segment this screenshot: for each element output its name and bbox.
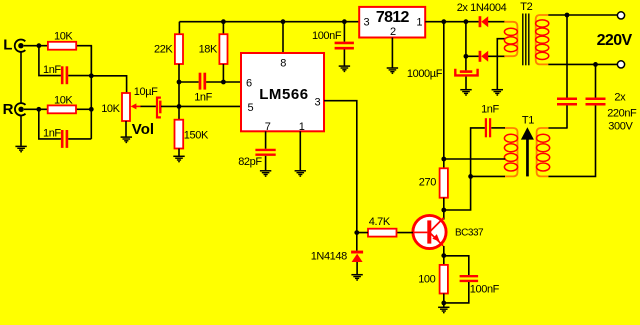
svg-text:6: 6 [246,77,252,89]
wire 1nF-R drop [39,109,61,139]
wire diode2 anode lead [466,55,479,57]
resistor 100 [440,265,448,294]
wire emitter down [443,246,445,265]
wire 1000uF to ground [465,77,467,90]
capacitor 100nF (emitter) [460,276,479,281]
capacitor 1nF (tank) [486,118,490,137]
wire T1 coil bottom branch [471,175,505,177]
svg-text:1nF: 1nF [481,104,499,116]
wire 18K top [222,22,224,35]
wire wiper to 10uF [141,105,156,107]
wire 100nF bottom return [444,282,469,303]
svg-text:4.7K: 4.7K [369,216,391,228]
node rail 100nF junction [342,19,347,24]
svg-text:300V: 300V [608,121,633,133]
resistor 10K (R) [48,105,76,113]
node tap junction [441,157,446,162]
svg-text:10K: 10K [54,95,73,107]
wire 1nF-L drop [39,46,61,76]
wire 1nF left drop [444,128,485,210]
wire cap B down to T1 bottom [548,106,595,177]
wire 1nF to T1 top [491,127,505,129]
ground 100nF [339,66,350,71]
transistor Q1 BC337 [412,215,446,248]
node T1 bottom junction [468,174,473,179]
wire T2 top to terminal [548,14,617,16]
wire pin6 row right [206,81,242,83]
wire 22K bottom to 150K [178,64,180,120]
node R sum junction [89,107,94,112]
wire 100nF to ground [343,49,345,65]
node T2 top junction [565,13,570,18]
regulator U2 7812 [359,7,425,38]
capacitor 10uF electrolytic [157,98,161,118]
ground 100 [438,307,449,312]
wire shell to ground [20,116,22,146]
wire 1nF-L right [68,75,91,77]
ground T2 center tap [492,90,503,95]
capacitor 220nF A [557,99,577,105]
svg-text:1000µF: 1000µF [407,68,443,80]
node L sum junction [89,73,94,78]
svg-text:2: 2 [390,26,396,38]
wire pin1 to ground [299,131,301,170]
node collector junction [441,208,446,213]
capacitor 1nF (pin6) [200,73,205,90]
wire T2 center tap [497,39,505,89]
capacitor 1nF (R) [62,130,67,148]
svg-text:150K: 150K [184,130,209,142]
node L mix junction [37,43,42,48]
svg-text:5: 5 [248,102,254,114]
svg-text:220nF: 220nF [607,108,637,120]
wire 18K bottom to pin6 [222,64,224,82]
resistor 150K [175,120,184,149]
resistor 22K [175,34,183,64]
svg-text:LM566: LM566 [259,86,308,103]
ground 82pF [260,171,271,176]
svg-text:3: 3 [315,97,321,109]
svg-text:8: 8 [280,58,286,70]
svg-text:10µF: 10µF [134,86,158,98]
svg-text:82pF: 82pF [238,156,262,168]
ground pin1 [295,171,306,176]
svg-text:270: 270 [419,176,436,188]
wire 10K-R right [76,108,91,110]
node rail collector branch [441,19,446,24]
wire T2 bottom to terminal [548,63,617,65]
node rail pin8 junction [281,19,286,24]
resistor 18K [219,34,227,64]
wire 1nF-R right [68,138,91,140]
connector L jack [15,40,26,52]
wire 10K-L right to mix line [76,46,91,76]
wire L signal [24,45,48,47]
wire diode2 cathode lead [488,55,505,57]
node base junction [354,230,359,235]
capacitor 82pF [255,150,275,155]
resistor 4.7K [368,229,397,237]
wire 22K top [178,22,180,35]
svg-text:2x 1N4004: 2x 1N4004 [457,2,507,14]
wire pin5 row [161,105,242,107]
terminal 220V top [617,12,624,19]
svg-text:100: 100 [418,273,435,285]
ground 7812 [387,68,398,73]
ground 150K [173,156,184,161]
transformer T2 [504,14,549,66]
svg-text:1nF: 1nF [43,64,61,76]
connector R jack [15,103,26,115]
node emitter junction [441,253,446,258]
svg-text:L: L [3,37,12,54]
svg-text:220V: 220V [597,32,633,49]
node pin5 junction [177,104,182,109]
wire terminal top to cap A [566,15,568,98]
wire 82pF to ground [265,156,267,170]
wire pin3 to 4.7K [324,101,368,233]
wire top rail [179,21,359,23]
svg-text:100nF: 100nF [470,283,500,295]
svg-text:10K: 10K [54,31,73,43]
capacitor 100nF (supply) [335,43,354,48]
node diode2 junction [464,54,469,59]
wire 1N4148 to ground [356,262,358,274]
wire cap A to T1 [566,106,568,129]
node T2 bottom junction [593,62,598,67]
ground 1000uF [460,90,471,95]
node rail diode branch [464,19,469,24]
ground pot [121,137,132,142]
resistor 270 [440,168,448,197]
svg-text:1N4148: 1N4148 [311,251,347,263]
wire mix to volume pot [91,76,126,93]
node R mix junction [36,107,41,112]
resistor 10K (L) [48,42,76,50]
diode D1 1N4004 [479,16,489,27]
svg-text:1nF: 1nF [43,128,61,140]
wire pot bottom to ground [125,121,127,137]
svg-text:1: 1 [416,16,422,28]
wire 100nF drop [343,22,345,42]
node 22K bottom junction [177,80,182,85]
wire emitter to 100nF [444,256,469,275]
op-amp U1 LM566 [241,53,324,131]
ground 1N4148 [351,275,362,280]
node 100 bottom junction [441,301,446,306]
wire mix vertical line [90,46,92,139]
wire 100 to ground [443,294,445,307]
capacitor 1000uF electrolytic [455,69,477,76]
svg-text:100nF: 100nF [312,30,342,42]
svg-text:3: 3 [364,16,370,28]
wire rail right of 7812 [425,21,479,23]
wire pin8 drop [282,22,284,53]
wire T1 top lead left [548,127,567,129]
wire jack shells [20,52,22,103]
transformer T1 [504,127,549,176]
wire base row [397,232,414,234]
wire R signal [24,108,48,110]
svg-text:18K: 18K [199,44,218,56]
wire rail down to 270 [443,22,445,169]
svg-text:22K: 22K [154,44,173,56]
svg-text:7812: 7812 [376,9,410,26]
ground input jacks [15,146,26,151]
terminal 220V bottom [617,61,624,68]
svg-text:2x: 2x [614,91,626,103]
wire pin6 row left [179,81,199,83]
svg-text:BC337: BC337 [455,227,484,238]
wire diode1 cathode lead [488,21,505,23]
wire 7812 pin2 to ground [391,38,393,68]
svg-text:Vol: Vol [132,121,154,138]
node rail 18K junction [221,19,226,24]
diode D2 1N4004 [479,51,489,62]
svg-text:1nF: 1nF [194,91,212,103]
wire 270 to collector [443,198,445,220]
svg-text:T1: T1 [522,115,534,127]
svg-text:T2: T2 [520,1,532,13]
node 18K bottom junction [221,80,226,85]
wire pin7 to 82pF [265,131,267,149]
wire terminal bottom to cap B [595,64,597,97]
wire to 1N4148 [356,233,358,251]
svg-text:10K: 10K [101,103,120,115]
diode D3 1N4148 [351,251,363,262]
wire 150K to ground [178,149,180,156]
wire T1 tap branch [444,158,506,160]
wire drop to diode2 and 1000uF [465,22,467,71]
svg-text:R: R [3,101,14,118]
capacitor 220nF B [586,99,606,105]
capacitor 1nF (L) [62,66,67,84]
potentiometer 10K Vol [122,93,141,121]
